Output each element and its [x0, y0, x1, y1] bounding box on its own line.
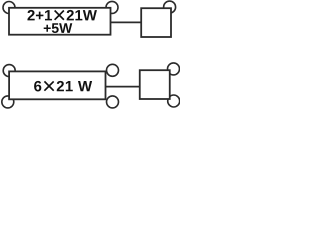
wire from lamp block B1 to connector P1 — [111, 21, 142, 23]
terminal circle bottom-right of lamp block B2 — [107, 96, 119, 108]
terminal circle top-right of lamp block B1 — [106, 1, 118, 13]
terminal circle top-right of connector P1 — [164, 1, 176, 13]
terminal circle bottom-left of lamp block B2 — [2, 96, 14, 108]
terminal circle top-left of lamp block B2 — [3, 65, 15, 77]
terminal circle top-right of connector P2 — [168, 63, 180, 75]
value label 2+1x21W — [27, 10, 96, 20]
lamp block B2 (6x21W) — [9, 71, 105, 99]
terminal circle top-left of lamp block B1 — [3, 2, 15, 14]
value label +5W — [44, 23, 73, 33]
terminal circle top-right of lamp block B2 — [107, 64, 119, 76]
terminal circle bottom-right of connector P2 — [168, 95, 180, 107]
value label 6x21W — [34, 81, 92, 92]
connector P2 — [140, 70, 170, 99]
connector P1 — [141, 8, 171, 37]
lamp block B1 (2+1x21W +5W) — [9, 8, 111, 35]
wire from lamp block B2 to connector P2 — [106, 86, 140, 88]
